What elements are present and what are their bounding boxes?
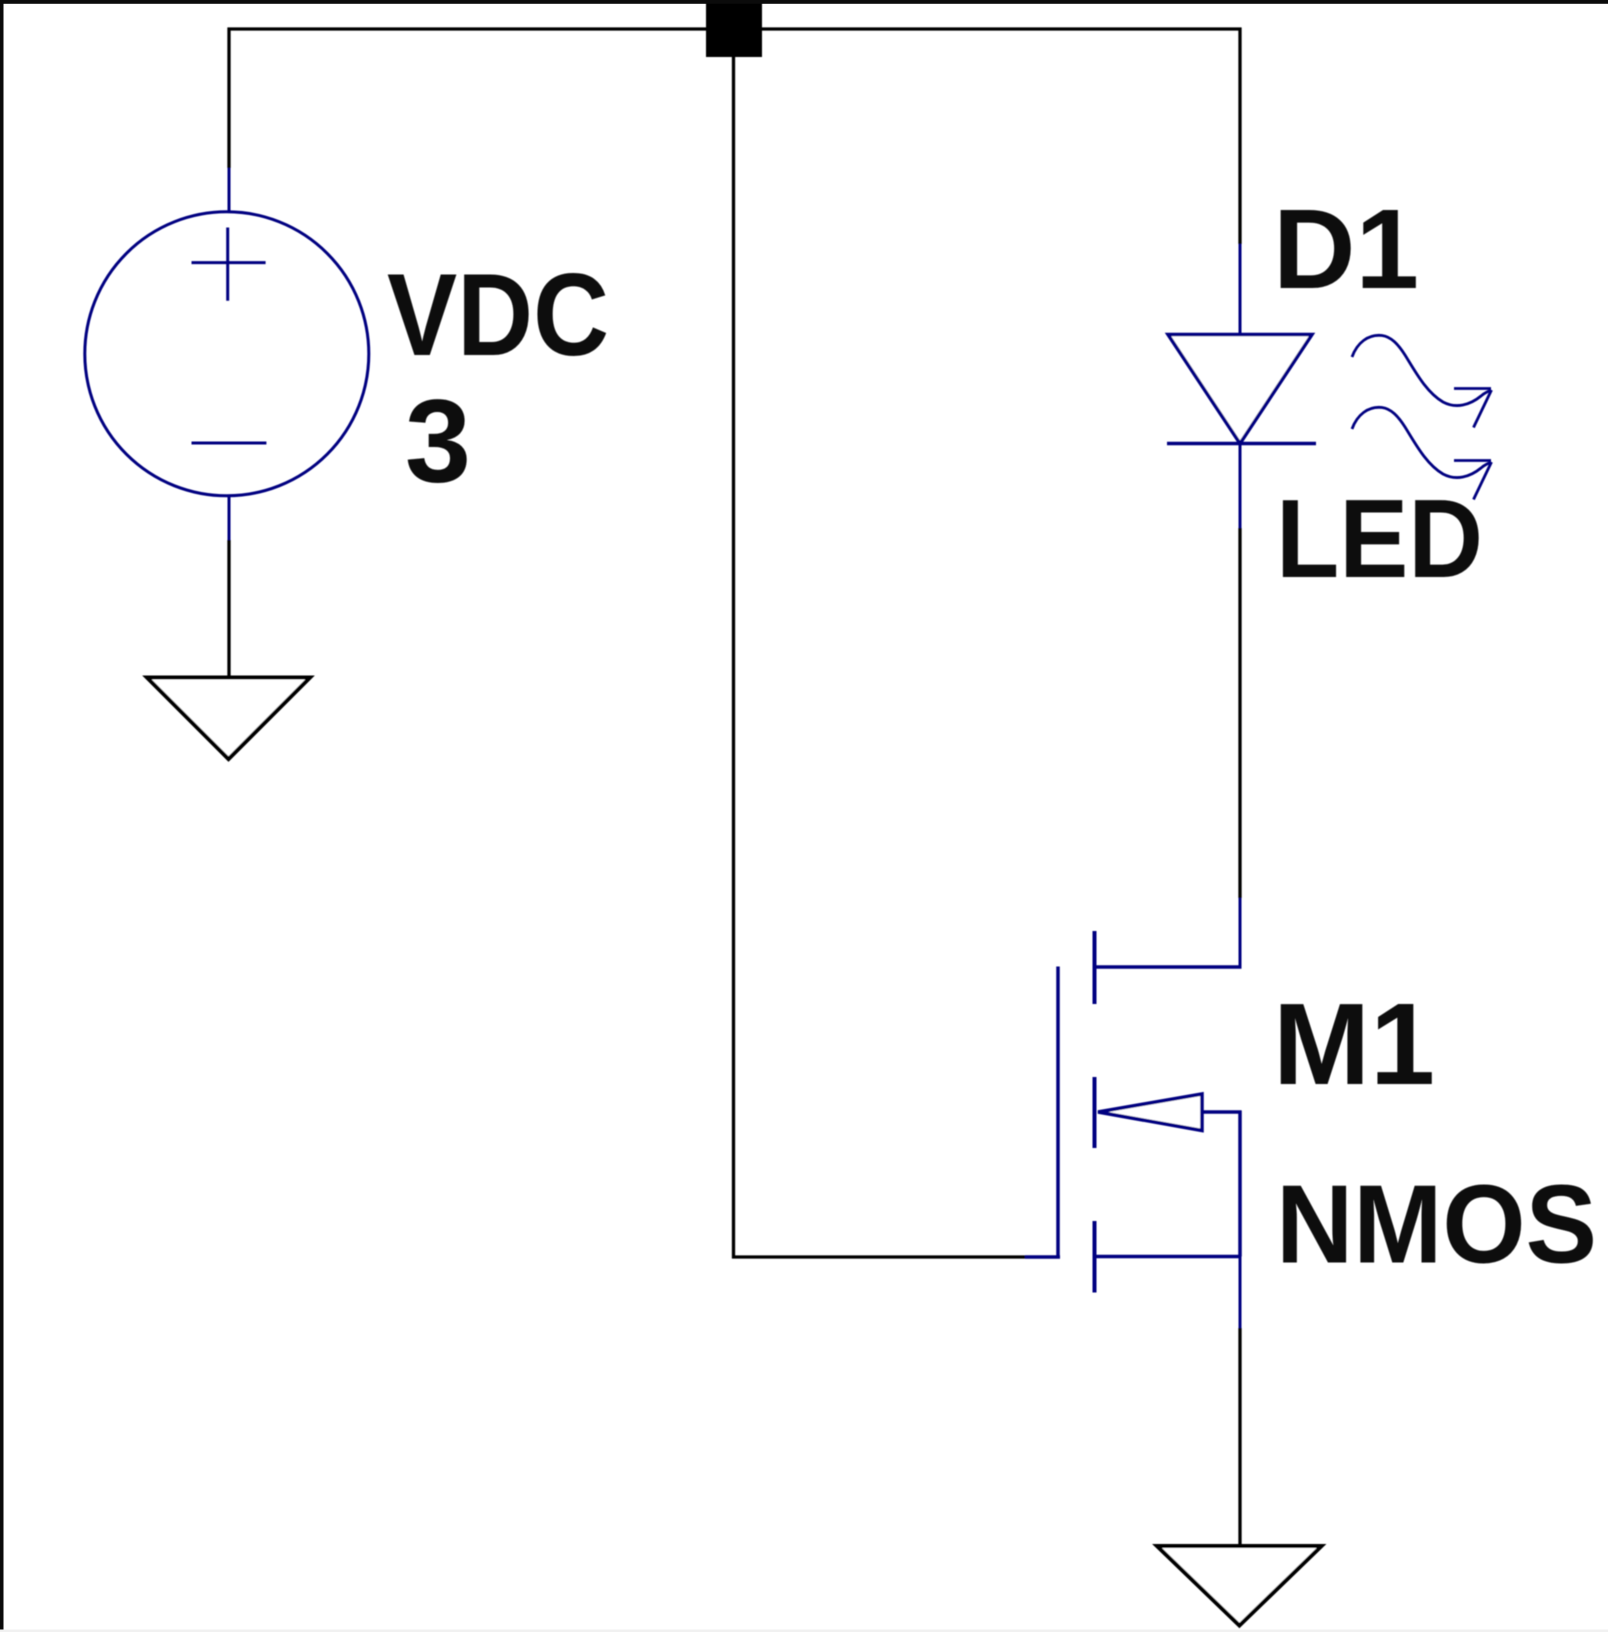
- LED light arrow 2: [1352, 407, 1492, 499]
- ground (VDC): [147, 678, 310, 760]
- wire top horizontal from VDC to right corner: [228, 27, 1242, 30]
- LED light arrow 1: [1352, 335, 1492, 427]
- M1 channel bar top: [1093, 931, 1097, 1004]
- VDC minus sign: [192, 442, 267, 445]
- M1 bulk arrow: [1098, 1094, 1202, 1131]
- svg-text:VDC: VDC: [387, 249, 609, 380]
- wire VDC top vertical: [227, 28, 230, 169]
- svg-text:LED: LED: [1276, 477, 1483, 601]
- diode D1 cathode bar: [1167, 442, 1316, 446]
- svg-text:3: 3: [405, 376, 471, 508]
- M1 channel bar bottom: [1093, 1221, 1097, 1293]
- ground (M1 source): [1157, 1546, 1322, 1626]
- voltage source VDC circle: [85, 212, 369, 496]
- wire gate horizontal to M1 gate: [732, 1255, 1025, 1258]
- wire D1 cathode to M1 drain: [1238, 528, 1241, 898]
- diode D1 triangle: [1168, 335, 1312, 444]
- VDC bottom lead: [228, 496, 231, 540]
- frame bottom strip: [0, 1630, 1608, 1632]
- svg-text:M1: M1: [1273, 979, 1435, 1109]
- svg-text:D1: D1: [1273, 186, 1419, 312]
- wire VDC bottom vertical to ground: [227, 540, 230, 678]
- transistor M1 NMOS: gate bar: [1056, 967, 1060, 1258]
- M1 source lead: [1239, 1255, 1242, 1328]
- node junction (black square): [706, 1, 762, 57]
- wire right vertical from top corner down to D1: [1238, 28, 1241, 245]
- wire gate vertical from junction down: [732, 57, 735, 1259]
- wire M1 source down to ground: [1238, 1328, 1241, 1547]
- M1 bulk-to-source vertical: [1238, 1111, 1242, 1257]
- VDC plus sign: [226, 228, 229, 301]
- M1 source horizontal: [1095, 1255, 1242, 1259]
- M1 gate lead: [1025, 1255, 1060, 1259]
- VDC top lead: [228, 168, 231, 212]
- M1 drain lead: [1239, 898, 1242, 969]
- frame left border: [0, 0, 4, 1630]
- diode D1 cathode lead: [1239, 444, 1242, 529]
- frame top border: [0, 0, 1608, 4]
- diode D1 LED anode lead: [1239, 244, 1242, 336]
- M1 bulk horizontal: [1203, 1110, 1242, 1114]
- M1 drain horizontal: [1095, 965, 1242, 969]
- svg-text:NMOS: NMOS: [1276, 1163, 1597, 1287]
- M1 channel bar middle: [1093, 1077, 1097, 1148]
